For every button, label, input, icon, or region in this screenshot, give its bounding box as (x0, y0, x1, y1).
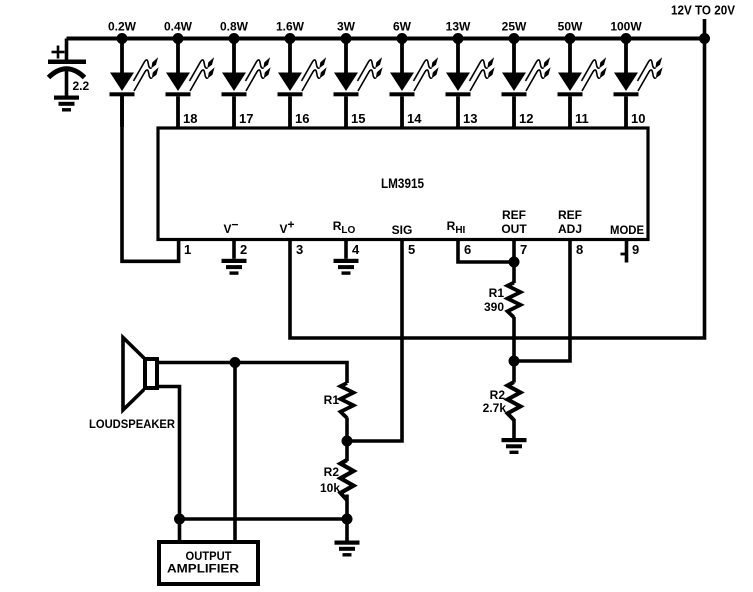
svg-text:6: 6 (464, 242, 471, 257)
node: bus junction 25W (509, 33, 520, 44)
node: bus junction 0.4W (173, 33, 184, 44)
ground (pin 2) (222, 259, 247, 275)
LED D3 (0.8W) (222, 39, 271, 128)
wire: R2 bottom to ground (345, 519, 349, 542)
svg-text:5: 5 (408, 242, 415, 257)
svg-text:REF: REF (502, 208, 526, 222)
svg-text:14: 14 (407, 111, 422, 126)
wire: speaker bottom to amplifier (159, 387, 180, 543)
wire: LED1 to pin 1 (122, 96, 179, 261)
op-amp U1 LM3915 body (158, 128, 648, 240)
node: R1/R2 junction (509, 356, 520, 367)
wire: pin 9 MODE stub (625, 239, 629, 263)
svg-text:2: 2 (240, 242, 247, 257)
svg-text:REF: REF (558, 208, 582, 222)
svg-text:13W: 13W (446, 20, 471, 34)
node: divider tap (342, 436, 353, 447)
svg-text:R2: R2 (490, 388, 506, 402)
loudspeaker LS1 (123, 338, 157, 411)
LED D8 (25W) (502, 39, 551, 128)
svg-text:3: 3 (296, 242, 303, 257)
LED D1 (0.2W) (110, 39, 159, 128)
ground (pin 4) (334, 259, 359, 275)
capacitor C1 2.2uF (48, 39, 90, 97)
svg-text:V−: V− (223, 218, 238, 237)
output amplifier box (159, 542, 258, 584)
svg-text:390: 390 (484, 300, 504, 314)
svg-text:ADJ: ADJ (558, 222, 582, 236)
svg-text:100W: 100W (610, 20, 642, 34)
svg-text:8: 8 (576, 242, 583, 257)
resistor R2 10k (341, 460, 354, 519)
svg-text:1.6W: 1.6W (276, 20, 305, 34)
wire: pin 6 RHI to REF OUT (458, 239, 514, 262)
svg-text:AMPLIFIER: AMPLIFIER (167, 562, 239, 576)
svg-text:RHI: RHI (447, 219, 466, 236)
svg-text:9: 9 (632, 242, 639, 257)
LED D4 (1.6W) (278, 39, 327, 128)
node: bus junction 1.6W (285, 33, 296, 44)
svg-text:SIG: SIG (392, 223, 413, 237)
svg-text:17: 17 (239, 111, 253, 126)
svg-text:7: 7 (520, 242, 527, 257)
node: speaker/amp junction (230, 357, 241, 368)
svg-text:6W: 6W (393, 20, 412, 34)
svg-text:0.8W: 0.8W (220, 20, 249, 34)
svg-text:10k: 10k (320, 481, 340, 495)
resistor R1 10k-divider (341, 383, 354, 461)
svg-text:3W: 3W (337, 20, 356, 34)
svg-text:4: 4 (352, 242, 360, 257)
svg-text:2.2: 2.2 (73, 79, 90, 93)
wire: pin 9 tick (621, 253, 627, 256)
LED D5 (3W) (334, 39, 383, 128)
svg-text:16: 16 (295, 111, 309, 126)
node: bus junction 50W (565, 33, 576, 44)
node: bus junction 13W (453, 33, 464, 44)
node: bus junction 6W (397, 33, 408, 44)
wire: pin 8 REF ADJ to divider (516, 239, 570, 361)
wire: junction down to amplifier (233, 363, 237, 543)
node: bus junction 100W (621, 33, 632, 44)
svg-text:12V TO 20V: 12V TO 20V (671, 4, 736, 18)
wire: pin 2 stub (232, 239, 236, 259)
svg-text:0.4W: 0.4W (164, 20, 193, 34)
svg-text:50W: 50W (558, 20, 583, 34)
svg-text:0.2W: 0.2W (108, 20, 137, 34)
ground (R2 10k) (335, 541, 360, 557)
LED D9 (50W) (558, 39, 607, 128)
svg-text:11: 11 (575, 111, 589, 126)
svg-text:13: 13 (463, 111, 477, 126)
node: supply junction (699, 33, 710, 44)
node: bus junction 3W (341, 33, 352, 44)
resistor R1 390 (508, 262, 521, 361)
LED D10 (100W) (614, 39, 663, 128)
svg-text:25W: 25W (502, 20, 527, 34)
svg-text:R2: R2 (324, 465, 340, 479)
wire: 12V input stub (703, 19, 707, 40)
wire: top supply bus (67, 37, 705, 41)
svg-text:OUT: OUT (501, 222, 527, 236)
resistor R2 2.7k (508, 361, 521, 439)
wire: speaker top to divider (159, 363, 347, 384)
svg-text:12: 12 (519, 111, 533, 126)
svg-text:RLO: RLO (333, 219, 356, 236)
wire: pin 5 SIG to divider tap (347, 239, 402, 441)
svg-text:R1: R1 (324, 393, 340, 407)
svg-text:10: 10 (631, 111, 645, 126)
wire: pin 4 stub (344, 239, 348, 259)
svg-text:LM3915: LM3915 (381, 175, 424, 191)
wire: pin 7 stub (512, 239, 516, 262)
node: amp return junction (174, 514, 185, 525)
node: bus junction 0.2W (117, 33, 128, 44)
svg-text:15: 15 (351, 111, 365, 126)
node: pin6/pin7 junction (509, 257, 520, 268)
svg-text:2.7k: 2.7k (483, 401, 507, 415)
node: R2 bottom junction (342, 514, 353, 525)
wire: pin 3 V+ to supply rail (290, 37, 705, 338)
ground (capacitor) (54, 96, 79, 112)
node: bus junction 0.8W (229, 33, 240, 44)
svg-text:MODE: MODE (610, 223, 644, 237)
svg-text:LOUDSPEAKER: LOUDSPEAKER (89, 417, 175, 431)
wire: amp return to R2 bottom (180, 517, 348, 521)
svg-text:V+: V+ (279, 218, 294, 237)
LED D2 (0.4W) (166, 39, 215, 128)
LED D6 (6W) (390, 39, 439, 128)
LED D7 (13W) (446, 39, 495, 128)
svg-text:18: 18 (183, 111, 197, 126)
svg-text:1: 1 (184, 242, 191, 257)
ground (R2 2.7k) (502, 438, 527, 454)
svg-text:R1: R1 (489, 286, 505, 300)
